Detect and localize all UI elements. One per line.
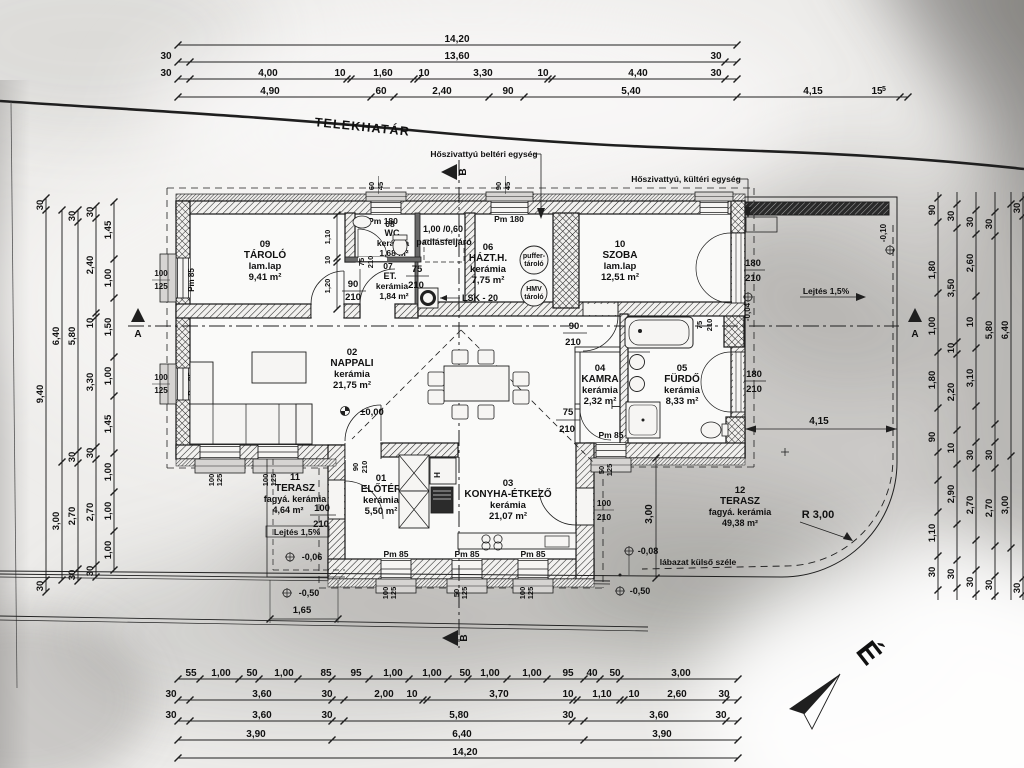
wall corner block SE of bathroom: [726, 417, 745, 457]
svg-text:1,00: 1,00: [211, 668, 231, 679]
partition: KAMRA left: [575, 347, 580, 443]
small cross mark in terrace: [781, 451, 789, 453]
section marker A right: [908, 308, 922, 322]
svg-text:2,70: 2,70: [85, 503, 96, 522]
svg-text:LSK - 20: LSK - 20: [462, 293, 498, 303]
svg-text:-0,06: -0,06: [302, 552, 323, 562]
wall: NAPPALI south: [176, 445, 345, 459]
svg-text:Pm 85: Pm 85: [520, 549, 545, 559]
svg-text:10: 10: [965, 317, 976, 328]
svg-text:Pm 180: Pm 180: [494, 214, 524, 224]
kitchen counter: [458, 533, 576, 549]
window NAPPALI south 1 (Pm 85): [200, 445, 240, 459]
svg-text:3,00: 3,00: [644, 504, 655, 524]
coffee table / sideboard: [252, 352, 306, 383]
svg-text:3,90: 3,90: [246, 729, 266, 740]
svg-text:55: 55: [185, 668, 197, 679]
svg-text:1,00: 1,00: [103, 269, 114, 288]
svg-text:-0,08: -0,08: [638, 546, 659, 556]
svg-text:5,40: 5,40: [621, 86, 641, 97]
terrace labazat dashed edge: [642, 225, 893, 569]
wall: south wall of KAMRA/FURDO block: [586, 443, 745, 458]
svg-text:9,40: 9,40: [35, 385, 46, 404]
svg-text:50: 50: [459, 668, 471, 679]
plinth strip under nappali wall: [176, 459, 336, 466]
top dimension chain row 1 (14,20): [178, 44, 737, 46]
svg-text:30: 30: [710, 68, 722, 79]
svg-text:30: 30: [1012, 583, 1023, 594]
svg-text:-0,10: -0,10: [879, 223, 888, 242]
svg-text:7,75 m²: 7,75 m²: [472, 275, 505, 286]
level mark -0,06: [286, 553, 294, 561]
svg-text:HÁZT.H.: HÁZT.H.: [469, 251, 508, 264]
svg-text:5,80: 5,80: [67, 327, 78, 346]
wall: chimney crosshatched: [553, 213, 579, 308]
kitchen sink: [545, 536, 569, 547]
svg-text:TERASZ: TERASZ: [720, 496, 760, 507]
svg-text:kerámia: kerámia: [582, 385, 619, 396]
svg-text:30: 30: [165, 689, 177, 700]
top dimension chain row 4: [178, 96, 908, 98]
interior dim chain in TAROLO: [336, 215, 338, 309]
svg-text:125: 125: [389, 587, 398, 600]
building interior fill: [176, 199, 745, 579]
svg-text:125: 125: [215, 474, 224, 487]
svg-text:1,10: 1,10: [927, 524, 938, 543]
svg-text:1,45: 1,45: [103, 220, 114, 239]
svg-text:75: 75: [412, 264, 423, 275]
right dimension chain 6: [1022, 192, 1024, 600]
svg-text:210: 210: [705, 319, 714, 332]
svg-text:1,80: 1,80: [927, 371, 938, 390]
svg-text:30: 30: [965, 450, 976, 461]
svg-text:4,15: 4,15: [809, 416, 829, 427]
kitchen H cabinet: [430, 458, 456, 484]
dining chairs: [452, 350, 468, 364]
svg-text:lam.lap: lam.lap: [249, 261, 282, 272]
svg-text:14,20: 14,20: [452, 747, 477, 758]
svg-text:210: 210: [559, 424, 575, 435]
svg-text:180: 180: [746, 369, 762, 380]
svg-text:30: 30: [965, 217, 976, 228]
svg-text:30: 30: [984, 219, 995, 230]
svg-text:40: 40: [586, 668, 598, 679]
svg-text:10: 10: [628, 689, 640, 700]
bottom dimension chain row 3: [178, 720, 738, 722]
wall: middle wall right: [418, 302, 745, 316]
svg-text:11: 11: [290, 472, 301, 483]
wall: west exterior: [176, 201, 190, 459]
svg-text:3,60: 3,60: [649, 710, 669, 721]
svg-text:90: 90: [927, 205, 938, 216]
svg-text:6,40: 6,40: [452, 729, 472, 740]
svg-text:5,80: 5,80: [984, 321, 995, 340]
svg-text:3,00: 3,00: [1000, 496, 1011, 515]
right dimension chain 1: [937, 192, 939, 600]
svg-text:3,30: 3,30: [85, 373, 96, 392]
heat pump outdoor unit box: [746, 217, 777, 232]
left site boundary line: [11, 102, 17, 688]
roof eaves dashed outline: [167, 187, 754, 189]
door TAROLO (90/210): [311, 305, 344, 317]
svg-text:12,51 m²: 12,51 m²: [601, 272, 639, 283]
svg-text:A: A: [134, 329, 141, 340]
svg-text:3,50: 3,50: [946, 279, 957, 298]
svg-text:45: 45: [376, 182, 385, 190]
bathtub: [625, 317, 693, 348]
terrace dim 3,00 vertical: [655, 458, 657, 578]
wall: TAROLO/WC divider: [345, 213, 355, 262]
wall: ELOTER west: [328, 445, 345, 578]
svg-text:HMV: HMV: [526, 286, 542, 293]
roof ridge dashed lines: [352, 330, 461, 439]
svg-text:75: 75: [357, 258, 366, 266]
svg-text:30: 30: [984, 450, 995, 461]
svg-text:ELŐTÉR: ELŐTÉR: [361, 482, 402, 495]
svg-text:10: 10: [418, 68, 430, 79]
svg-text:3,10: 3,10: [965, 369, 976, 388]
svg-text:09: 09: [260, 239, 271, 250]
fascia dense strip above north wall: [176, 194, 745, 201]
kitchen tall cabinets with X: [399, 455, 429, 491]
svg-text:2,70: 2,70: [984, 499, 995, 518]
svg-text:1,00: 1,00: [522, 668, 542, 679]
bottom dimension chain row 4: [178, 739, 738, 741]
svg-text:210: 210: [746, 384, 762, 395]
svg-text:2,40: 2,40: [432, 86, 452, 97]
svg-text:1,50: 1,50: [103, 318, 114, 337]
svg-text:210: 210: [366, 256, 375, 269]
svg-text:1,00: 1,00: [927, 317, 938, 336]
svg-text:30: 30: [165, 710, 177, 721]
cooktop: [482, 535, 490, 543]
svg-text:1,00: 1,00: [480, 668, 500, 679]
scanner shadow left edge: [0, 80, 30, 768]
level mark +-0,00: [341, 407, 350, 416]
svg-text:12: 12: [735, 485, 746, 496]
window KONYHA south 2 (Pm 85): [518, 559, 548, 579]
right dimension chain 3: [975, 192, 977, 600]
svg-text:1,00: 1,00: [383, 668, 403, 679]
svg-text:5,80: 5,80: [449, 710, 469, 721]
svg-text:2,20: 2,20: [946, 383, 957, 402]
svg-text:30: 30: [321, 710, 333, 721]
svg-text:90: 90: [494, 182, 503, 190]
svg-text:kerámia: kerámia: [664, 385, 701, 396]
svg-text:30: 30: [984, 580, 995, 591]
svg-text:30: 30: [946, 569, 957, 580]
svg-text:1,80: 1,80: [927, 261, 938, 280]
svg-text:Hőszivattyú, kültéri egység: Hőszivattyú, kültéri egység: [631, 174, 741, 184]
left dimension chain A: [45, 198, 47, 592]
svg-text:ET.: ET.: [383, 271, 396, 281]
wall: east exterior: [731, 213, 745, 458]
WC toilet: [393, 237, 407, 255]
svg-text:10: 10: [323, 256, 332, 264]
svg-text:14,20: 14,20: [444, 34, 469, 45]
svg-text:60: 60: [375, 86, 387, 97]
svg-text:30: 30: [718, 689, 730, 700]
section marker A left: [131, 308, 145, 322]
svg-text:kerámia: kerámia: [376, 281, 408, 291]
dining table: [444, 366, 509, 401]
wall: middle wall left (under TAROLO): [176, 304, 311, 318]
dim 1,65: [270, 618, 338, 620]
svg-text:SZOBA: SZOBA: [603, 250, 638, 261]
french door hall east (180/210): [733, 352, 743, 412]
svg-text:2,70: 2,70: [965, 496, 976, 515]
svg-text:1,00: 1,00: [103, 367, 114, 386]
svg-text:30: 30: [160, 51, 172, 62]
svg-text:tároló: tároló: [524, 261, 543, 268]
svg-text:1,20: 1,20: [323, 279, 332, 294]
svg-text:30: 30: [67, 452, 78, 463]
svg-text:kerámia: kerámia: [470, 264, 507, 275]
door KONYHA east (100/210): [577, 488, 593, 525]
svg-text:30: 30: [35, 581, 46, 592]
svg-text:2,40: 2,40: [85, 256, 96, 275]
section axis B-B: [458, 160, 460, 648]
wall: KONYHA east: [576, 443, 594, 579]
svg-text:2,00: 2,00: [374, 689, 394, 700]
heat pump outdoor unit black bar: [745, 202, 889, 215]
svg-text:2,90: 2,90: [946, 485, 957, 504]
svg-text:4,64 m²: 4,64 m²: [272, 505, 303, 515]
right dimension chain 5: [1010, 192, 1012, 600]
top dimension chain row 3: [178, 78, 737, 80]
svg-text:50: 50: [609, 668, 621, 679]
svg-text:75: 75: [563, 407, 574, 418]
svg-text:1,00: 1,00: [103, 541, 114, 560]
svg-text:50: 50: [246, 668, 258, 679]
svg-text:-0,04: -0,04: [743, 302, 752, 321]
svg-text:5: 5: [882, 86, 886, 93]
svg-text:2,70: 2,70: [67, 507, 78, 526]
left dimension chain D: [95, 206, 97, 577]
svg-text:±0,00: ±0,00: [360, 407, 384, 418]
svg-text:-0,50: -0,50: [299, 588, 320, 598]
door KAMRA (75/210): [580, 409, 611, 440]
scanner shadow centre blob over terrace: [480, 220, 980, 620]
svg-text:85: 85: [320, 668, 332, 679]
svg-text:1,65: 1,65: [293, 605, 312, 616]
svg-text:125: 125: [605, 464, 614, 477]
bottom dimension chain row 1: [178, 678, 738, 680]
svg-text:30: 30: [715, 710, 727, 721]
svg-text:1,00: 1,00: [274, 668, 294, 679]
svg-text:90: 90: [502, 86, 514, 97]
svg-text:100: 100: [597, 498, 611, 508]
HMV tank: [521, 280, 547, 306]
svg-text:90: 90: [351, 463, 360, 471]
section marker B bottom: [442, 630, 458, 646]
svg-text:30: 30: [927, 567, 938, 578]
svg-text:07: 07: [383, 261, 393, 271]
svg-text:30: 30: [67, 211, 78, 222]
svg-text:10: 10: [537, 68, 549, 79]
svg-text:125: 125: [526, 587, 535, 600]
svg-text:90: 90: [348, 279, 359, 290]
svg-text:10: 10: [946, 443, 957, 454]
terrace east edge solid with rounded corner: [0, 197, 897, 577]
svg-text:100: 100: [154, 269, 168, 278]
partition: WC south: [345, 257, 421, 262]
partition: ET east: [415, 262, 418, 304]
svg-text:8,33 m²: 8,33 m²: [666, 396, 699, 407]
svg-text:125: 125: [460, 587, 469, 600]
section marker B top: [441, 164, 457, 180]
svg-text:1,60: 1,60: [373, 68, 393, 79]
bottom site line 1: [0, 574, 610, 581]
terrace dim 4,15: [745, 428, 897, 430]
svg-text:kerámia: kerámia: [363, 495, 400, 506]
north arrow: [789, 674, 840, 714]
svg-text:4,90: 4,90: [260, 86, 280, 97]
window KAMRA south (Pm 85, 50/125): [596, 443, 626, 458]
svg-text:TÁROLÓ: TÁROLÓ: [244, 248, 286, 261]
svg-text:B: B: [458, 168, 469, 175]
svg-text:90: 90: [927, 432, 938, 443]
svg-text:06: 06: [483, 242, 494, 253]
svg-text:03: 03: [503, 478, 514, 489]
svg-text:30: 30: [321, 689, 333, 700]
svg-text:kerámia: kerámia: [490, 500, 527, 511]
plinth strip under konyha south wall: [328, 579, 594, 587]
partition: KAMRA bottom with door gap: [575, 404, 580, 409]
door SZOBA from hall (90/210): [583, 304, 618, 315]
window TAROLO west (Pm 85 / 100 125): [176, 258, 190, 298]
WC washbasin: [353, 216, 371, 228]
svg-text:FÜRDŐ: FÜRDŐ: [664, 372, 700, 385]
svg-text:210: 210: [597, 512, 611, 522]
svg-text:30: 30: [85, 207, 96, 218]
bathroom sinks: [630, 355, 645, 370]
svg-text:Pm 85: Pm 85: [454, 549, 479, 559]
partition: KAMRA top: [575, 347, 622, 352]
wall: south wall ELOTER+KONYHA: [328, 559, 594, 579]
shower: [626, 402, 660, 438]
svg-text:10: 10: [406, 689, 418, 700]
svg-text:30: 30: [1012, 203, 1023, 214]
svg-text:lam.lap: lam.lap: [604, 261, 637, 272]
svg-text:05: 05: [677, 363, 688, 374]
svg-text:21,07 m²: 21,07 m²: [489, 511, 527, 522]
svg-text:2,32 m²: 2,32 m²: [584, 396, 617, 407]
wall corner block NE: [731, 201, 745, 233]
level mark -0,50 right: [616, 587, 624, 595]
partition: WC east: [415, 213, 420, 262]
svg-text:100: 100: [154, 373, 168, 382]
toilet FURDO: [701, 422, 721, 438]
svg-text:4,15: 4,15: [803, 86, 823, 97]
french door SZOBA east (180/210): [732, 233, 744, 303]
svg-text:1,45: 1,45: [103, 414, 114, 433]
svg-text:1,10: 1,10: [592, 689, 612, 700]
window KONYHA south 1 (Pm 85, 50/125): [452, 559, 482, 579]
svg-text:30: 30: [85, 448, 96, 459]
svg-text:3,60: 3,60: [252, 710, 272, 721]
door ELOTER to NAPPALI (90/210): [345, 444, 381, 460]
window NAPPALI west (Pm 85 / 100 125): [176, 368, 190, 400]
level mark -0,50 left: [283, 589, 291, 597]
svg-text:tároló: tároló: [524, 294, 543, 301]
svg-text:1,84 m²: 1,84 m²: [379, 291, 408, 301]
svg-text:3,00: 3,00: [671, 668, 691, 679]
svg-text:10: 10: [85, 318, 96, 329]
section axis A-A: [128, 325, 899, 327]
svg-text:1,00 /0,60: 1,00 /0,60: [423, 224, 463, 234]
right dimension chain 2: [956, 192, 958, 600]
entrance door (100/210): [329, 480, 344, 519]
wall pier east between doors: [724, 307, 744, 347]
svg-text:3,30: 3,30: [473, 68, 493, 79]
svg-text:3,70: 3,70: [489, 689, 509, 700]
bottom dimension chain row 2: [178, 699, 738, 701]
svg-text:21,75 m²: 21,75 m²: [333, 380, 371, 391]
svg-text:H: H: [433, 472, 442, 478]
svg-text:100: 100: [314, 503, 330, 514]
svg-text:3,00: 3,00: [51, 512, 62, 531]
svg-text:Pm 85: Pm 85: [187, 268, 196, 292]
svg-text:30: 30: [946, 211, 957, 222]
svg-text:95: 95: [350, 668, 362, 679]
telekhatar property boundary line: [0, 101, 1024, 169]
svg-text:210: 210: [565, 337, 581, 348]
svg-text:10: 10: [562, 689, 574, 700]
left dimension chain B: [61, 210, 63, 580]
svg-text:4,00: 4,00: [258, 68, 278, 79]
svg-text:04: 04: [595, 363, 606, 374]
svg-text:75: 75: [695, 321, 704, 329]
window WC north (Pm 180): [371, 201, 401, 214]
svg-text:02: 02: [347, 347, 358, 358]
svg-text:210: 210: [360, 461, 369, 474]
svg-text:4,40: 4,40: [628, 68, 648, 79]
svg-text:6,40: 6,40: [1000, 321, 1011, 340]
wall: corridor/HAZT.H divider: [465, 213, 475, 302]
window NAPPALI south 2 (Pm 85): [258, 445, 298, 459]
svg-text:puffer-: puffer-: [523, 253, 546, 260]
svg-text:B: B: [459, 634, 470, 641]
window HAZT.H north (Pm 180): [491, 201, 528, 214]
svg-text:KONYHA-ÉTKEZŐ: KONYHA-ÉTKEZŐ: [464, 487, 551, 500]
svg-text:210: 210: [345, 292, 361, 303]
sofa: [190, 362, 213, 442]
svg-text:95: 95: [562, 668, 574, 679]
svg-text:10: 10: [334, 68, 346, 79]
svg-text:TERASZ: TERASZ: [275, 483, 315, 494]
svg-text:1,00: 1,00: [103, 463, 114, 482]
svg-text:01: 01: [376, 473, 387, 484]
svg-text:fagyá. kerámia: fagyá. kerámia: [709, 507, 773, 517]
svg-text:125: 125: [154, 282, 168, 291]
svg-text:R 3,00: R 3,00: [802, 509, 834, 521]
wall: ELOTER north segment: [381, 443, 458, 457]
svg-text:Lejtés 1,5%: Lejtés 1,5%: [803, 286, 850, 296]
LSK-20 floor drain: [418, 288, 438, 308]
scanner shadow right band: [955, 140, 1024, 620]
svg-text:180: 180: [745, 258, 761, 269]
svg-text:1,10: 1,10: [323, 230, 332, 245]
right dimension chain 4: [994, 192, 996, 600]
svg-text:210: 210: [745, 273, 761, 284]
svg-text:30: 30: [85, 566, 96, 577]
svg-text:3,60: 3,60: [252, 689, 272, 700]
plinth strip under bathroom south wall: [594, 458, 745, 465]
svg-text:1,00: 1,00: [103, 502, 114, 521]
left dimension chain C: [77, 210, 79, 581]
svg-text:30: 30: [562, 710, 574, 721]
